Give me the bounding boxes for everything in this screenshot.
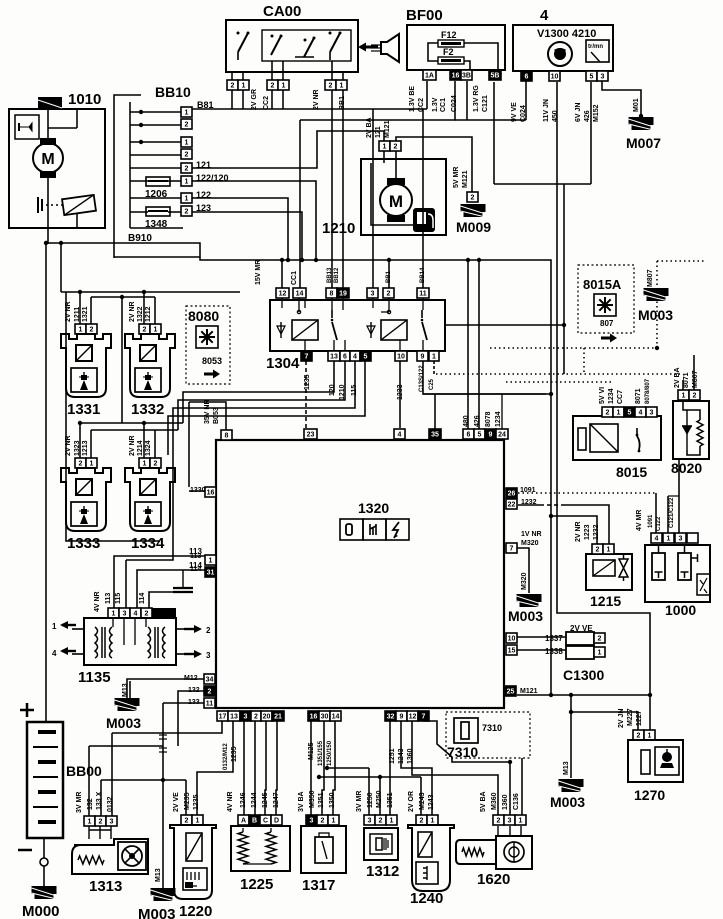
pin 1312 1 — [386, 815, 397, 825]
pin 1225 C — [260, 815, 271, 825]
svg-text:5V MR: 5V MR — [453, 167, 460, 188]
arrow 1135 out3 — [176, 650, 211, 660]
wire CA00 a1 down — [242, 90, 244, 109]
svg-text:1: 1 — [143, 461, 147, 468]
wire 1312 p2 — [379, 777, 381, 815]
svg-text:2: 2 — [79, 461, 83, 468]
svg-text:114: 114 — [189, 561, 202, 570]
svg-text:1322: 1322 — [137, 306, 144, 322]
pin ECU 13 — [228, 711, 240, 721]
svg-text:M003: M003 — [138, 906, 176, 919]
wire CA00 c2 up — [331, 61, 333, 80]
box 1312 — [364, 828, 398, 860]
pin ECU 31 — [205, 567, 216, 577]
wire 1331 p1 — [79, 292, 81, 324]
pin box4 6 — [521, 71, 532, 81]
svg-text:1: 1 — [667, 536, 671, 543]
svg-text:2: 2 — [185, 166, 189, 173]
wire 1220 p2 drop — [185, 780, 187, 815]
svg-text:1620: 1620 — [477, 871, 510, 888]
svg-text:1: 1 — [79, 327, 83, 334]
wire CA00 c2 down — [331, 90, 333, 109]
tr/mn box4 — [586, 40, 609, 62]
8015 sensor rect — [578, 424, 618, 452]
wire y768 — [327, 767, 369, 769]
svg-text:M003: M003 — [508, 608, 543, 624]
wire box4 pin3 to M007 — [602, 81, 641, 116]
svg-text:15V MR: 15V MR — [255, 260, 262, 285]
wire 1333 p1 — [90, 430, 92, 458]
svg-text:CA00: CA00 — [263, 3, 301, 20]
svg-text:14: 14 — [296, 291, 304, 298]
svg-text:2: 2 — [321, 818, 325, 825]
svg-text:4V NR: 4V NR — [227, 791, 234, 812]
svg-text:BB10: BB10 — [155, 84, 191, 100]
wire M003 to ECU34 — [127, 679, 204, 698]
svg-text:1A: 1A — [425, 73, 434, 80]
pin 1317 3 — [306, 815, 317, 825]
svg-text:1: 1 — [185, 179, 189, 186]
svg-text:1: 1 — [52, 622, 57, 631]
box 8020 — [673, 401, 709, 459]
wire BB10 pin1 — [130, 111, 181, 113]
wire 1010 motor top — [47, 109, 49, 138]
svg-text:4: 4 — [134, 611, 138, 618]
svg-text:0132: 0132 — [107, 796, 114, 812]
pin BB10 4 — [181, 149, 192, 159]
pin ECU 4 — [394, 429, 405, 439]
wire 1304 pin7 dashed to ECU 23 — [305, 361, 307, 428]
svg-text:1215: 1215 — [590, 593, 621, 609]
pin 1304 10 — [395, 351, 407, 361]
svg-text:11: 11 — [206, 701, 214, 708]
svg-text:3: 3 — [371, 291, 375, 298]
coil 1135 left — [95, 627, 112, 658]
pin 8015 1 — [613, 407, 624, 417]
injector 1333 connector — [75, 458, 86, 468]
hatch feed block 1010 — [38, 97, 62, 109]
svg-text:2: 2 — [99, 819, 103, 826]
box C1300 a — [566, 632, 594, 645]
svg-text:B053: B053 — [213, 407, 220, 424]
pin 1240 1 — [427, 815, 438, 825]
wire box4 pin6 C024 — [525, 81, 527, 120]
svg-text:1330: 1330 — [190, 487, 206, 494]
wire M13 to ECU34 — [129, 681, 131, 698]
ground M009 — [461, 204, 486, 217]
pin CA00 a1 — [238, 80, 249, 90]
wire 1240 p2 — [420, 777, 422, 815]
svg-text:1250: 1250 — [367, 792, 374, 808]
svg-text:M: M — [389, 192, 403, 211]
arrow 1135 out4 — [52, 647, 84, 658]
svg-text:8020: 8020 — [671, 460, 702, 476]
pin 1270 1 — [644, 730, 655, 740]
wire 8020 down to 1000 — [678, 459, 680, 534]
wire pin22 to 1215 pin1 part1 — [518, 504, 540, 506]
svg-text:1235: 1235 — [304, 374, 311, 390]
wire 325 drop — [563, 325, 565, 374]
svg-text:25: 25 — [507, 689, 515, 696]
svg-text:6: 6 — [525, 74, 529, 81]
svg-text:2: 2 — [497, 818, 501, 825]
svg-text:C25: C25 — [429, 378, 435, 390]
pin ECU 26 — [506, 488, 517, 498]
wire to pin2 — [388, 260, 390, 288]
svg-text:3V MR: 3V MR — [76, 792, 83, 813]
1215 coil — [593, 560, 615, 576]
pin BF00 16 — [450, 70, 461, 80]
injector 1332 nozzle icon — [143, 372, 153, 390]
svg-text:30: 30 — [321, 714, 329, 721]
wire injector bus1 — [61, 291, 240, 293]
svg-text:1: 1 — [432, 354, 436, 361]
svg-text:426: 426 — [584, 110, 591, 122]
svg-text:M121: M121 — [384, 120, 391, 138]
pin 1135 dark — [152, 608, 176, 618]
svg-text:15: 15 — [508, 648, 516, 655]
box 1225 — [231, 826, 290, 871]
pin BB10 7 — [181, 193, 192, 203]
svg-text:14: 14 — [332, 714, 340, 721]
svg-text:1: 1 — [282, 83, 286, 90]
wire 1010 inner — [76, 109, 78, 128]
wire CA00 b1 up — [282, 61, 284, 80]
pin 8020 2 — [689, 390, 700, 400]
pin box4 3 — [597, 71, 608, 81]
svg-text:23: 23 — [307, 432, 315, 439]
svg-text:7310: 7310 — [482, 723, 502, 733]
injector 1332 connector — [139, 324, 150, 334]
pin CA00 c1 — [336, 80, 347, 90]
svg-text:120: 120 — [329, 384, 336, 396]
svg-text:2: 2 — [206, 626, 211, 635]
svg-text:2: 2 — [185, 209, 189, 216]
pin ECU 7 — [506, 543, 517, 553]
svg-text:22: 22 — [508, 502, 516, 509]
svg-text:M360: M360 — [491, 792, 498, 810]
pin ECU 23 — [304, 429, 317, 439]
svg-text:1: 1 — [90, 461, 94, 468]
wire main bus — [46, 243, 551, 695]
svg-text:M13: M13 — [563, 761, 570, 775]
dotted v1 — [583, 348, 585, 374]
pin ECU 25 — [505, 686, 516, 696]
svg-text:31: 31 — [207, 570, 215, 577]
svg-text:5V VI: 5V VI — [599, 387, 606, 404]
pin 1000 blank — [687, 533, 698, 543]
svg-text:1: 1 — [185, 140, 189, 147]
wire cluster3 to 1620 — [423, 721, 510, 815]
svg-text:1V NR: 1V NR — [521, 531, 542, 538]
svg-text:1333: 1333 — [67, 535, 100, 552]
svg-text:1320: 1320 — [358, 500, 389, 516]
wire injector bus4 — [91, 429, 178, 431]
pin 1317 1 — [328, 815, 339, 825]
resistor 8020 — [697, 420, 703, 446]
svg-text:1206: 1206 — [145, 189, 168, 200]
pin 1240 2 — [416, 815, 427, 825]
svg-text:BB12: BB12 — [334, 267, 340, 283]
svg-text:2: 2 — [254, 714, 258, 721]
motor M 1010 — [33, 138, 63, 178]
wire BB10 pin8a — [130, 211, 148, 213]
wire injector bus2 — [91, 296, 155, 298]
svg-text:2: 2 — [379, 818, 383, 825]
1317 sensor — [315, 833, 333, 863]
box 1270 — [628, 740, 683, 782]
svg-text:1350: 1350 — [329, 792, 336, 808]
wire 1313 p1 drop — [88, 746, 90, 816]
svg-text:3: 3 — [508, 818, 512, 825]
svg-text:2: 2 — [394, 144, 398, 151]
switch CA00 s3 — [295, 37, 316, 58]
pin 1210 2 — [390, 141, 401, 151]
wire 426 vertical — [478, 260, 480, 429]
pin 8015 4 — [635, 407, 646, 417]
svg-text:1334: 1334 — [131, 535, 165, 552]
svg-text:7: 7 — [305, 354, 309, 361]
body 1220 — [170, 825, 216, 899]
dotted 1091 line — [518, 492, 655, 494]
pin BB10 5 — [181, 163, 192, 173]
svg-text:1010: 1010 — [68, 91, 101, 108]
wire BB12 — [342, 109, 344, 288]
dashed box 8015A — [578, 265, 634, 333]
wire 1304 pin10 to ECU 4 — [399, 361, 401, 428]
wire 1010 relay down — [76, 213, 78, 228]
relay2 contact 1304 — [421, 310, 427, 340]
svg-text:M152: M152 — [593, 104, 600, 122]
svg-text:1304: 1304 — [266, 355, 300, 372]
wire BF00 f12 out — [464, 43, 498, 70]
svg-text:2: 2 — [637, 733, 641, 740]
pin ECU 5 — [474, 429, 485, 439]
box 1304 — [270, 300, 445, 351]
wire cap from 1135 — [149, 592, 183, 608]
pin ECU b2 — [251, 711, 261, 721]
pin 1135 1 — [108, 608, 119, 618]
wire 115 from 1135 — [125, 560, 127, 608]
dotted h4 — [506, 381, 612, 383]
motor M 1210 — [380, 178, 412, 222]
wire 1312 p3 — [368, 768, 370, 815]
svg-text:M13: M13 — [155, 868, 162, 882]
wire battery bus — [45, 243, 47, 722]
wire ECU7 M320 — [517, 548, 529, 593]
pin CA00 b1 — [278, 80, 289, 90]
svg-text:M009: M009 — [456, 219, 491, 235]
body 1620 — [456, 836, 532, 869]
capacitor 1135 — [173, 570, 193, 592]
wire cluster2 to 1317 p1 — [333, 721, 335, 815]
wire pin22 to 1215 pin1 part2 — [565, 505, 609, 544]
svg-text:3: 3 — [123, 611, 127, 618]
pin 1135 2 — [141, 608, 152, 618]
wire M013 stem — [570, 695, 572, 778]
wire M121 from ECU25 — [517, 694, 649, 696]
wire 1332 p1 — [154, 297, 156, 324]
svg-text:2V BA: 2V BA — [366, 117, 373, 138]
svg-text:2V NR: 2V NR — [313, 89, 320, 110]
svg-text:5: 5 — [364, 354, 368, 361]
wire BB10 bracket — [129, 102, 131, 228]
wire 1620 pins — [498, 826, 521, 836]
wire 1220 M235 and 1313 p2 — [101, 779, 186, 781]
wire 1010 motor to battery bus — [47, 178, 49, 244]
svg-text:CC1: CC1 — [291, 271, 298, 285]
wire BB10 pin6a — [130, 180, 148, 182]
pin 1225 B — [249, 815, 260, 825]
svg-text:3: 3 — [310, 818, 314, 825]
injector 1334 nozzle icon — [143, 506, 153, 524]
wire B81 bus — [192, 108, 427, 110]
svg-text:1213: 1213 — [82, 440, 89, 456]
pin 1304 11 — [417, 288, 429, 298]
svg-text:1: 1 — [617, 410, 621, 417]
svg-text:1: 1 — [112, 611, 116, 618]
wire 121 to 1210 pin1 — [192, 131, 384, 168]
svg-text:12: 12 — [279, 291, 287, 298]
wire 1331 p2 — [90, 297, 92, 324]
svg-text:35: 35 — [431, 432, 439, 439]
pin 1313 1 — [84, 816, 95, 826]
wire 1304 pin9 right — [423, 361, 546, 394]
svg-text:M250: M250 — [376, 790, 383, 808]
arrow 807 — [601, 334, 617, 343]
svg-text:1312: 1312 — [366, 863, 399, 880]
svg-text:8078/807: 8078/807 — [645, 378, 651, 404]
wire BB10 bracket bottom — [130, 227, 183, 229]
icon cell 3 ECU — [386, 519, 409, 540]
svg-text:tr/mn: tr/mn — [588, 44, 603, 50]
wire BF00 f2 out — [464, 61, 470, 70]
pin 1210 1 — [379, 141, 390, 151]
svg-text:M000: M000 — [22, 903, 60, 919]
svg-text:1: 1 — [196, 818, 200, 825]
wire 1620 p2 from ECU 12 — [412, 721, 498, 815]
svg-text:1.3V: 1.3V — [432, 97, 439, 112]
pin 1312 3 — [364, 815, 375, 825]
wire cluster3 to 1240 p1 — [401, 721, 432, 815]
relay coil 1010 — [62, 195, 96, 215]
wire 1000 pin1 up — [667, 496, 669, 533]
svg-text:6V JN: 6V JN — [575, 103, 582, 122]
resistor 1313 — [78, 856, 104, 864]
pin ECU b16 — [308, 711, 319, 721]
svg-text:2V NR: 2V NR — [129, 435, 136, 456]
wire CA00 c1 up — [342, 72, 344, 80]
svg-text:M13: M13 — [122, 683, 129, 697]
svg-text:1: 1 — [185, 196, 189, 203]
1620 solenoid — [504, 842, 524, 862]
snowflake icon 8015A — [594, 294, 616, 316]
wire CA00 c1 down — [342, 90, 344, 109]
wire 113 from 1135 — [114, 556, 205, 608]
svg-text:16: 16 — [452, 73, 460, 80]
wire C024 link — [455, 119, 526, 121]
wire 1304 pin4 left — [173, 361, 355, 455]
pin ECU 24 — [496, 429, 508, 439]
wire 1210 pin1 internal — [383, 151, 385, 163]
arrow 1135 out2 — [176, 625, 211, 635]
resistor 1206 — [146, 177, 170, 186]
wire 480 vertical — [467, 260, 469, 429]
svg-text:3: 3 — [650, 410, 654, 417]
svg-text:16: 16 — [207, 490, 215, 497]
pin 8015 5 — [624, 407, 635, 417]
svg-text:5: 5 — [590, 74, 594, 81]
1270 internals — [641, 747, 679, 775]
pin ECU 2 — [204, 686, 215, 696]
svg-text:4: 4 — [398, 432, 402, 439]
svg-text:1: 1 — [332, 818, 336, 825]
svg-text:1317: 1317 — [302, 877, 335, 894]
svg-text:1.3V RG: 1.3V RG — [473, 85, 480, 112]
pin 1317 2 — [317, 815, 328, 825]
svg-text:2: 2 — [693, 393, 697, 400]
injector 1331 body — [61, 334, 111, 397]
svg-text:1000: 1000 — [665, 602, 696, 618]
svg-text:1235: 1235 — [193, 794, 200, 810]
wire injector frame — [66, 292, 160, 541]
svg-text:1360: 1360 — [502, 794, 509, 810]
ground M000 — [32, 886, 57, 899]
pin ECU 34 — [204, 674, 215, 684]
wire BF00 internal — [428, 43, 438, 61]
svg-text:F12: F12 — [441, 30, 457, 40]
svg-text:1338: 1338 — [545, 647, 563, 656]
svg-text:1240: 1240 — [410, 890, 443, 907]
wire 1334 p1 — [143, 423, 145, 458]
wire 115 link — [126, 455, 173, 560]
pin 1304 8 — [326, 288, 337, 298]
pin ECU b3 — [240, 711, 251, 721]
wire 123 — [192, 212, 302, 260]
wire 1334 p2 — [154, 430, 156, 458]
svg-text:2V OR: 2V OR — [408, 791, 415, 812]
wire CA00 b1 down — [282, 90, 284, 109]
wire cluster3 to 1312 p1 — [389, 721, 391, 815]
wire 8020 pins up — [682, 380, 684, 390]
1000 internals — [652, 545, 710, 595]
svg-text:1244: 1244 — [251, 792, 258, 808]
pin 1304 6 — [340, 351, 350, 361]
svg-text:16: 16 — [310, 714, 318, 721]
svg-text:2: 2 — [185, 818, 189, 825]
svg-text:M01: M01 — [633, 98, 640, 112]
svg-text:M121: M121 — [462, 170, 469, 188]
pin 1215 1 — [603, 544, 614, 554]
coil 1620 — [462, 848, 484, 856]
wire 5B C121 down — [493, 82, 495, 184]
snowflake icon 8080 — [196, 326, 218, 348]
pin ECU 32 — [385, 711, 396, 721]
svg-text:3V MR: 3V MR — [356, 791, 363, 812]
svg-text:1: 1 — [431, 818, 435, 825]
ground M007 — [629, 117, 654, 130]
wire BB10 pin2 — [130, 124, 181, 126]
wire cluster1 to 1225 D — [276, 721, 277, 815]
svg-text:4V NR: 4V NR — [94, 591, 101, 612]
svg-text:2: 2 — [596, 547, 600, 554]
svg-text:3: 3 — [368, 818, 372, 825]
wire 15V MR — [281, 260, 283, 288]
wire 1210 pin2 to M009 — [396, 137, 472, 192]
svg-text:1247: 1247 — [273, 792, 280, 808]
svg-text:20: 20 — [263, 714, 271, 721]
wire 1313 pin1 — [89, 745, 163, 747]
